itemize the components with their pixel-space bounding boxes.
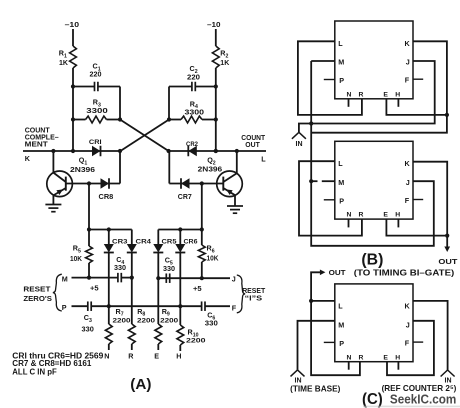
svg-text:CR2: CR2 — [186, 141, 198, 148]
svg-text:–10: –10 — [65, 20, 80, 29]
svg-text:OUT: OUT — [438, 257, 457, 266]
svg-text:E: E — [383, 212, 388, 219]
svg-text:–10: –10 — [207, 20, 221, 29]
svg-text:CR8: CR8 — [99, 192, 114, 201]
svg-text:“I”S: “I”S — [245, 294, 263, 303]
svg-text:10K: 10K — [207, 256, 219, 263]
svg-text:P: P — [62, 303, 67, 312]
svg-text:220: 220 — [90, 72, 102, 79]
svg-text:2200: 2200 — [113, 317, 131, 324]
svg-text:+5: +5 — [90, 284, 99, 293]
svg-text:K: K — [404, 39, 410, 48]
svg-text:J: J — [232, 274, 236, 283]
svg-text:H: H — [395, 354, 400, 361]
svg-text:(A): (A) — [130, 376, 151, 393]
svg-text:R: R — [359, 212, 364, 219]
svg-text:CR5: CR5 — [162, 238, 177, 245]
svg-text:E: E — [383, 354, 388, 361]
svg-text:2200: 2200 — [137, 317, 155, 324]
svg-text:CR7: CR7 — [178, 192, 192, 201]
svg-text:H: H — [395, 212, 400, 219]
svg-text:J: J — [406, 178, 410, 187]
svg-text:220: 220 — [187, 74, 200, 81]
svg-text:330: 330 — [82, 327, 94, 334]
svg-text:ZERO'S: ZERO'S — [23, 294, 52, 303]
svg-text:CR4: CR4 — [136, 238, 152, 245]
svg-text:N: N — [347, 212, 352, 219]
svg-text:(TO TIMING BI–GATE): (TO TIMING BI–GATE) — [354, 269, 455, 278]
svg-text:(B): (B) — [361, 251, 383, 268]
svg-text:F: F — [405, 196, 410, 205]
svg-text:+5: +5 — [193, 284, 202, 293]
svg-text:L: L — [338, 159, 343, 168]
svg-text:CR6: CR6 — [184, 238, 198, 245]
svg-text:K: K — [404, 302, 410, 311]
svg-text:CRI: CRI — [89, 139, 102, 146]
svg-text:OUT: OUT — [329, 268, 346, 277]
svg-text:J: J — [406, 58, 410, 67]
svg-text:R: R — [128, 352, 134, 361]
svg-text:P: P — [339, 76, 344, 85]
svg-text:1K: 1K — [59, 60, 68, 67]
svg-text:2200: 2200 — [160, 317, 178, 324]
svg-text:1K: 1K — [220, 60, 229, 67]
svg-text:3300: 3300 — [185, 109, 205, 116]
svg-text:E: E — [154, 352, 159, 361]
svg-text:R: R — [359, 354, 364, 361]
svg-text:H: H — [176, 352, 181, 361]
svg-text:2N396: 2N396 — [70, 165, 95, 174]
svg-text:2200: 2200 — [186, 338, 206, 345]
svg-text:CR3: CR3 — [112, 238, 128, 245]
svg-text:330: 330 — [205, 321, 218, 328]
svg-text:K: K — [404, 159, 410, 168]
svg-text:R: R — [359, 91, 364, 98]
svg-text:MENT: MENT — [25, 140, 49, 149]
svg-text:SeekIC.com: SeekIC.com — [390, 392, 456, 406]
svg-text:M: M — [62, 274, 68, 283]
svg-text:N: N — [347, 354, 352, 361]
svg-text:F: F — [232, 304, 237, 313]
svg-text:F: F — [405, 339, 410, 348]
svg-text:10K: 10K — [70, 256, 82, 263]
svg-text:3300: 3300 — [86, 108, 108, 115]
svg-text:ALL C IN pF: ALL C IN pF — [12, 367, 57, 376]
svg-text:L: L — [261, 155, 266, 164]
svg-text:P: P — [339, 339, 344, 348]
svg-text:330: 330 — [114, 265, 126, 272]
svg-text:330: 330 — [163, 266, 175, 273]
svg-text:F: F — [405, 76, 410, 85]
svg-text:OUT: OUT — [245, 140, 260, 149]
svg-text:L: L — [338, 302, 343, 311]
svg-text:J: J — [406, 321, 410, 330]
svg-text:H: H — [395, 91, 400, 98]
svg-text:M: M — [338, 178, 344, 187]
svg-text:N: N — [347, 91, 352, 98]
svg-text:M: M — [338, 58, 344, 67]
svg-text:K: K — [25, 154, 31, 163]
svg-text:E: E — [383, 91, 388, 98]
svg-text:P: P — [339, 197, 344, 206]
svg-text:(TIME BASE): (TIME BASE) — [290, 383, 340, 393]
svg-text:IN: IN — [296, 141, 303, 148]
svg-text:L: L — [338, 39, 343, 48]
svg-text:RESET: RESET — [23, 285, 51, 294]
svg-text:2N396: 2N396 — [198, 165, 223, 174]
svg-text:N: N — [104, 352, 109, 361]
svg-text:M: M — [338, 321, 344, 330]
svg-text:(C): (C) — [362, 391, 383, 408]
